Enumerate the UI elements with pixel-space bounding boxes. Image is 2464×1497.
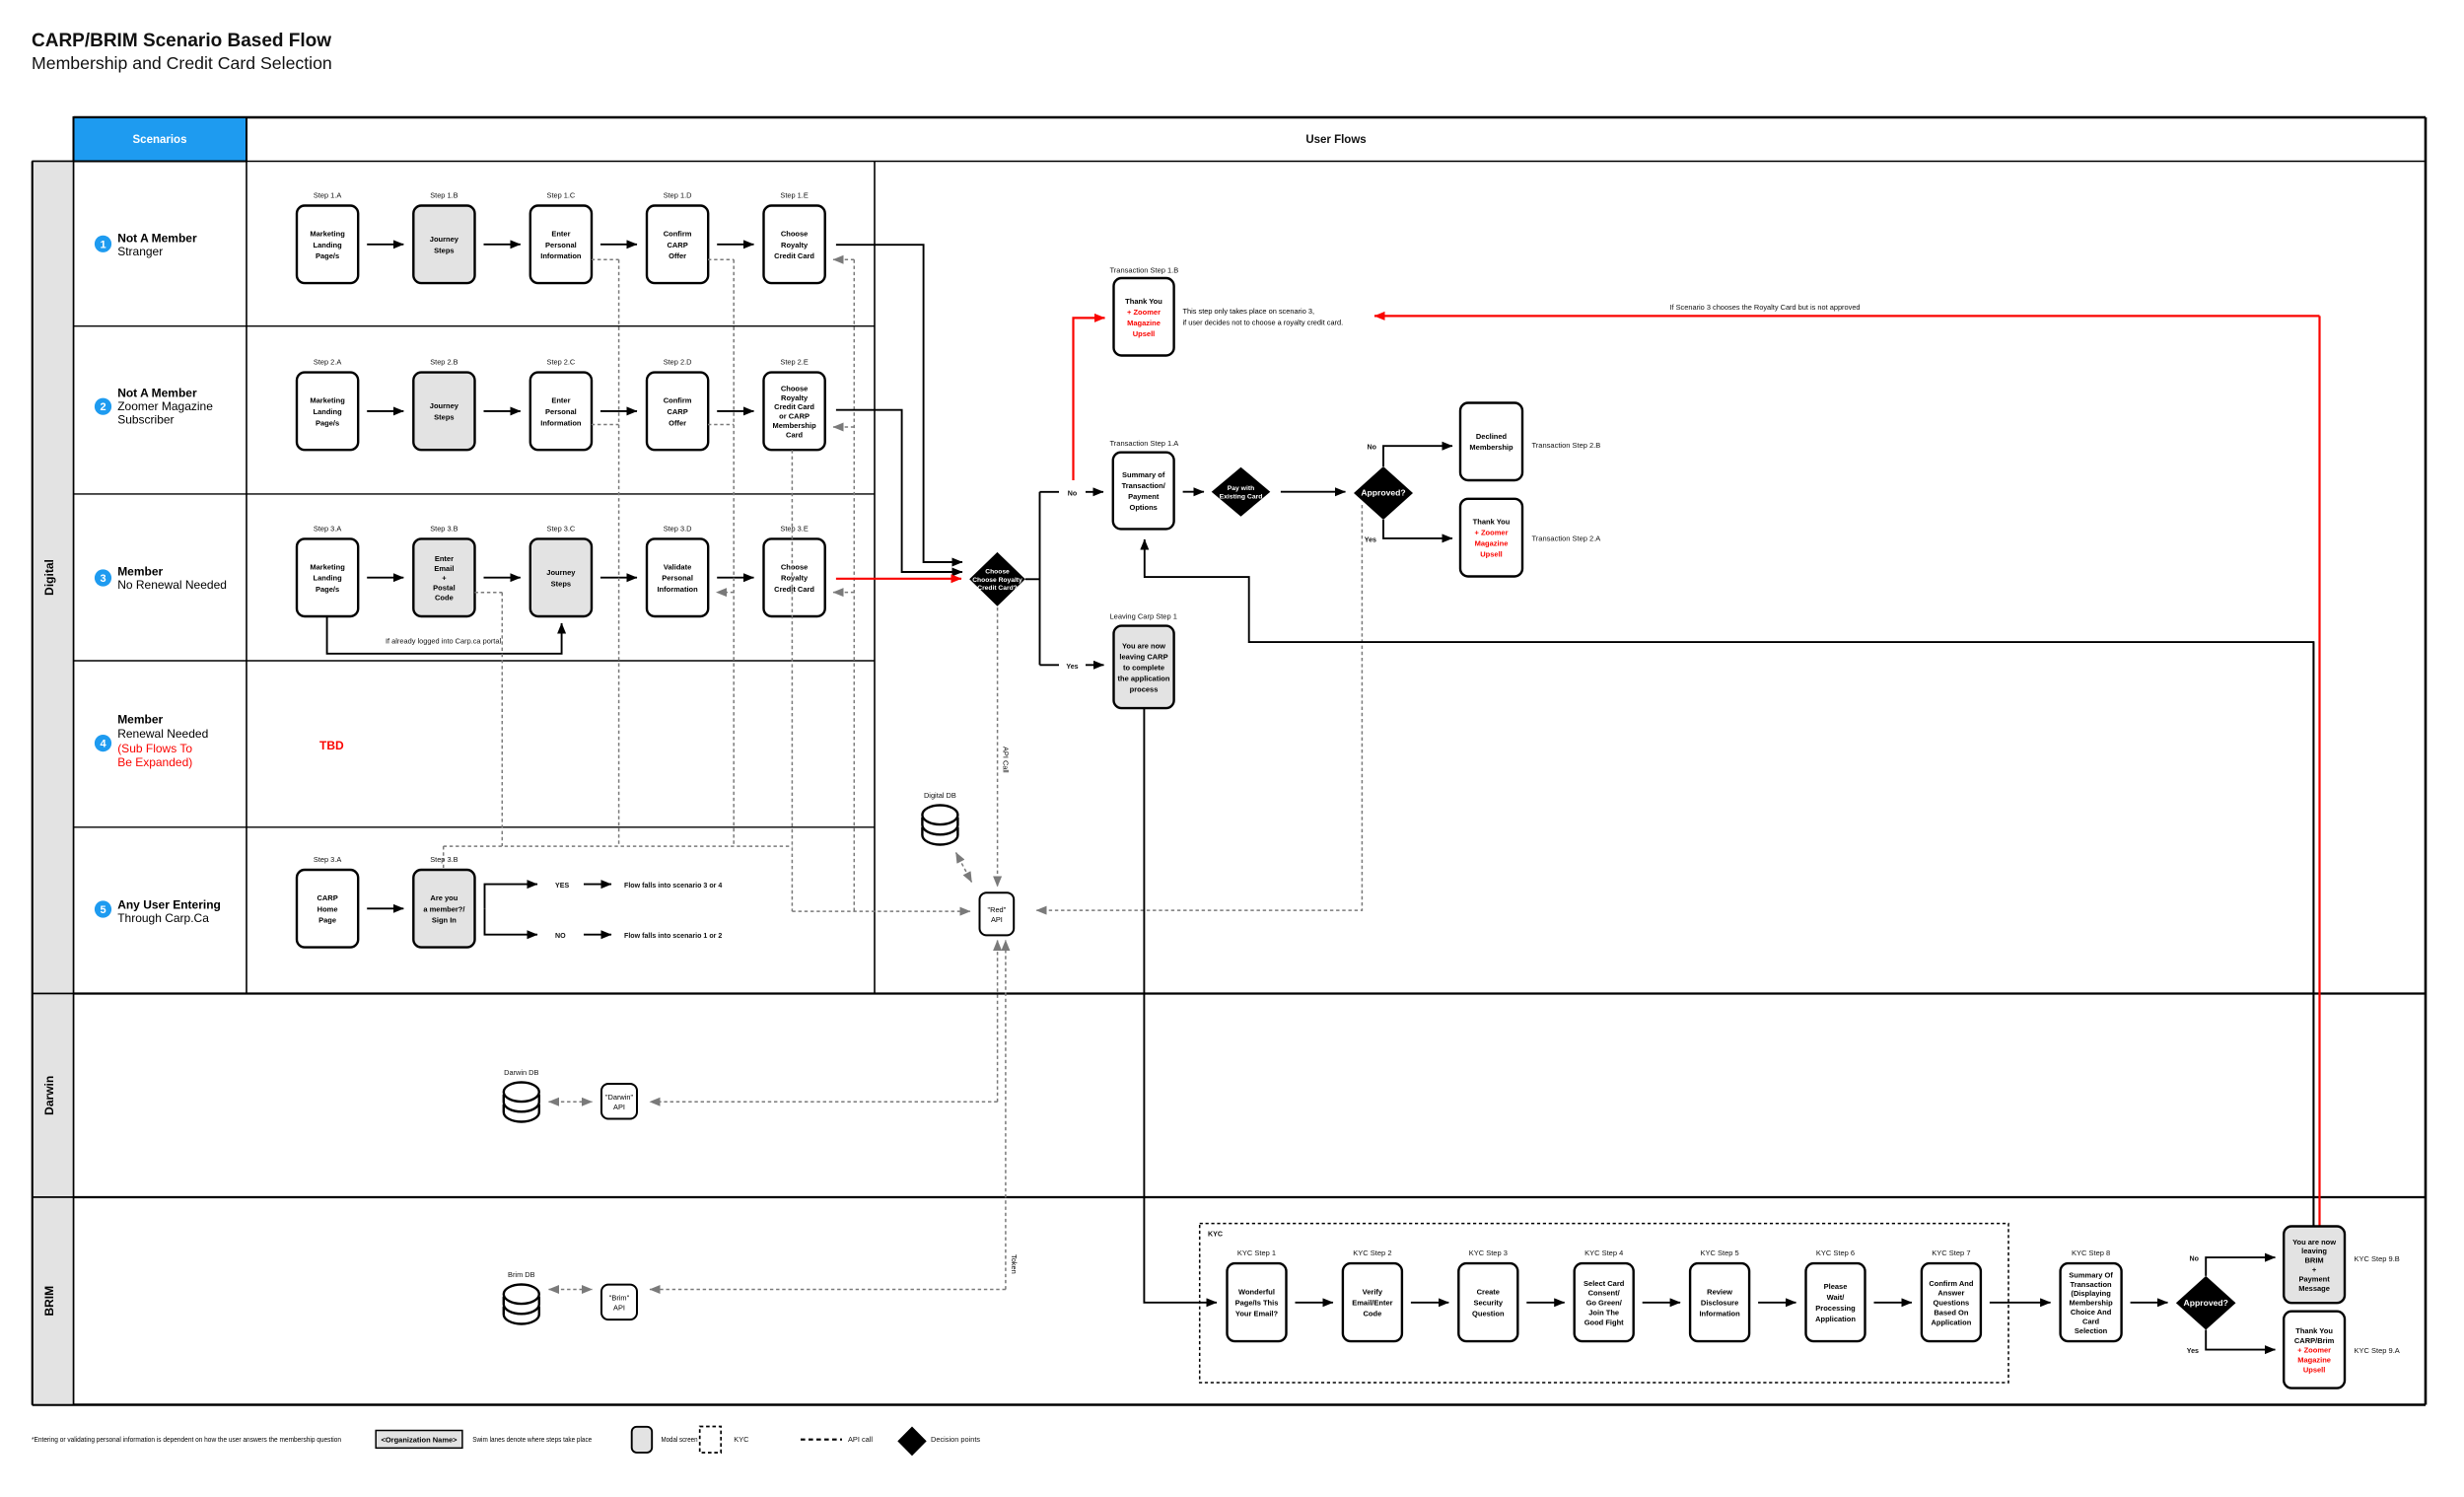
svg-text:Steps: Steps bbox=[551, 579, 571, 588]
box step 1.E Choose Royalty Credit Card bbox=[764, 206, 825, 284]
annotation scenario-3 note bbox=[1183, 307, 1344, 327]
wire BRIM approved Yes corner bbox=[2206, 1330, 2275, 1350]
wire approved No corner bbox=[1383, 446, 1452, 466]
wire KYC 1 to 2 bbox=[1296, 1302, 1333, 1304]
api-call stub row1 C bbox=[592, 258, 619, 260]
svg-text:Information: Information bbox=[1699, 1310, 1740, 1319]
svg-text:to complete: to complete bbox=[1123, 663, 1164, 672]
svg-text:Are you: Are you bbox=[430, 893, 458, 902]
svg-text:Scenarios: Scenarios bbox=[133, 134, 187, 146]
scenario 3 label bbox=[117, 565, 227, 593]
svg-text:Create: Create bbox=[1477, 1288, 1500, 1297]
database Digital DB bbox=[922, 806, 957, 845]
svg-text:4: 4 bbox=[100, 739, 106, 750]
svg-text:Card: Card bbox=[786, 430, 804, 439]
svg-text:Step 2.D: Step 2.D bbox=[664, 358, 692, 367]
svg-text:Darwin: Darwin bbox=[42, 1076, 56, 1115]
svg-text:Choose: Choose bbox=[781, 384, 809, 392]
wire Pay to Approved diamond bbox=[1281, 491, 1346, 493]
svg-text:Thank You: Thank You bbox=[2295, 1326, 2333, 1335]
legend Organization Name box bbox=[376, 1431, 462, 1449]
decision Choose Royalty Credit Card? bbox=[969, 552, 1025, 606]
svg-text:Landing: Landing bbox=[314, 574, 343, 583]
BRIM lane label bbox=[33, 1197, 74, 1405]
svg-text:Join The: Join The bbox=[1588, 1309, 1619, 1318]
api node "Red" API bbox=[980, 892, 1015, 935]
wire row2 A to B bbox=[367, 410, 403, 412]
svg-text:Step 2.E: Step 2.E bbox=[780, 358, 808, 367]
svg-text:Summary of: Summary of bbox=[1122, 470, 1165, 479]
svg-text:Your Email?: Your Email? bbox=[1235, 1310, 1279, 1319]
svg-text:Existing Card: Existing Card bbox=[1220, 494, 1263, 501]
api-call stub 3.B bbox=[475, 592, 503, 594]
svg-text:Step 1.E: Step 1.E bbox=[780, 191, 808, 200]
svg-text:KYC Step 1: KYC Step 1 bbox=[1237, 1248, 1276, 1257]
svg-text:Steps: Steps bbox=[434, 247, 454, 255]
wire KYC 5 to 6 bbox=[1758, 1302, 1795, 1304]
wire row2 B to C bbox=[484, 410, 521, 412]
api-call drop to row5 sign-in box bbox=[443, 846, 445, 868]
svg-text:Step 1.D: Step 1.D bbox=[664, 191, 692, 200]
svg-text:Landing: Landing bbox=[314, 241, 343, 249]
api-call arrow into 3.E bbox=[833, 592, 854, 594]
svg-text:Step 1.A: Step 1.A bbox=[314, 191, 341, 200]
svg-text:Answer: Answer bbox=[1937, 1289, 1964, 1298]
svg-text:Step 3.A: Step 3.A bbox=[314, 524, 341, 533]
api-call Darwin API horizontal bbox=[650, 1101, 998, 1103]
legend API call sample bbox=[801, 1439, 842, 1441]
svg-text:Zoomer Magazine: Zoomer Magazine bbox=[117, 399, 213, 413]
legend modal screen sample bbox=[632, 1427, 653, 1453]
svg-text:"Darwin": "Darwin" bbox=[605, 1093, 634, 1102]
svg-text:Question: Question bbox=[1472, 1310, 1505, 1319]
database Brim DB bbox=[504, 1285, 539, 1324]
svg-text:Member: Member bbox=[117, 713, 163, 727]
wire choose No arrow to Summary bbox=[1086, 491, 1103, 493]
svg-text:Information: Information bbox=[657, 585, 698, 594]
table outer bottom border bbox=[33, 1403, 2426, 1406]
svg-text:Not A Member: Not A Member bbox=[117, 231, 197, 245]
wire choose branch vertical bbox=[1039, 492, 1041, 666]
box KYC Step 5 bbox=[1690, 1263, 1749, 1341]
box KYC Step 6 bbox=[1806, 1263, 1866, 1341]
svg-text:*Entering or validating person: *Entering or validating personal informa… bbox=[32, 1435, 341, 1444]
svg-text:the application: the application bbox=[1118, 674, 1170, 682]
svg-text:CARP: CARP bbox=[317, 893, 337, 902]
svg-text:Modal screen: Modal screen bbox=[662, 1435, 698, 1444]
wire KYC 3 to 4 bbox=[1526, 1302, 1564, 1304]
svg-text:Step 3.B: Step 3.B bbox=[430, 524, 458, 533]
svg-text:Magazine: Magazine bbox=[2297, 1356, 2331, 1365]
svg-text:a member?/: a member?/ bbox=[423, 904, 465, 913]
box step 2.E Choose Royalty Credit Card or CARP Membership Card bbox=[764, 373, 825, 451]
svg-text:If already logged into Carp.ca: If already logged into Carp.ca portal bbox=[386, 637, 501, 646]
scenario 2 label bbox=[117, 386, 213, 426]
svg-text:Choose: Choose bbox=[781, 229, 809, 238]
svg-text:Validate: Validate bbox=[664, 562, 691, 571]
svg-text:Information: Information bbox=[540, 418, 582, 427]
row separator 3/4 bbox=[74, 660, 876, 662]
api-call Darwin DB link bbox=[549, 1101, 593, 1103]
wire choose diamond out bbox=[1025, 578, 1040, 580]
row separator 4/5 bbox=[74, 826, 876, 828]
box step 3.C Journey Steps (modal) bbox=[530, 538, 592, 616]
token Brim API to Red API vertical bbox=[1005, 941, 1007, 1290]
wire row2 D to E bbox=[717, 410, 753, 412]
svg-text:User Flows: User Flows bbox=[1305, 134, 1366, 146]
Digital/Darwin lane separator bbox=[33, 992, 2426, 994]
api-call into Red API from left bbox=[792, 910, 970, 912]
svg-text:CARP: CARP bbox=[667, 407, 687, 416]
svg-text:Sign In: Sign In bbox=[432, 916, 457, 925]
box KYC Step 4 bbox=[1575, 1263, 1634, 1341]
svg-text:KYC Step 2: KYC Step 2 bbox=[1353, 1248, 1391, 1257]
box step 3.E Choose Royalty Credit Card bbox=[764, 538, 825, 616]
svg-text:CARP/BRIM Scenario Based Flow: CARP/BRIM Scenario Based Flow bbox=[32, 31, 331, 51]
box KYC Step 7 bbox=[1922, 1263, 1981, 1341]
svg-text:Page: Page bbox=[318, 916, 336, 925]
api node "Brim" API bbox=[601, 1285, 637, 1320]
svg-text:Transaction/: Transaction/ bbox=[1122, 481, 1166, 490]
svg-text:API call: API call bbox=[848, 1435, 873, 1444]
svg-text:CARP: CARP bbox=[667, 241, 687, 249]
Digital lane label bbox=[33, 162, 74, 994]
api-call Choose diamond to Red API bbox=[997, 607, 999, 887]
svg-text:Application: Application bbox=[1815, 1315, 1856, 1323]
svg-text:Message: Message bbox=[2298, 1284, 2330, 1293]
svg-text:Magazine: Magazine bbox=[1127, 319, 1161, 327]
svg-text:Transaction Step 1.B: Transaction Step 1.B bbox=[1110, 266, 1179, 275]
legend KYC sample bbox=[700, 1427, 722, 1454]
svg-text:Upsell: Upsell bbox=[1133, 329, 1156, 338]
svg-text:Review: Review bbox=[1707, 1288, 1732, 1297]
svg-text:NO: NO bbox=[555, 932, 566, 940]
wire choose Yes stub bbox=[1040, 664, 1060, 666]
svg-text:Credit Card: Credit Card bbox=[774, 251, 814, 260]
svg-text:Step 2.C: Step 2.C bbox=[547, 358, 576, 367]
api-call Digital DB to Red API diagonal bbox=[956, 853, 972, 883]
svg-text:KYC: KYC bbox=[1208, 1231, 1223, 1239]
wire Summary to Pay diamond bbox=[1183, 491, 1204, 493]
scenario 5 label bbox=[117, 897, 221, 925]
wire row1 A to B bbox=[367, 244, 403, 246]
svg-text:Code: Code bbox=[1364, 1310, 1382, 1319]
svg-text:Credit Card: Credit Card bbox=[774, 402, 814, 411]
table outer left border bbox=[32, 162, 35, 1405]
svg-text:TBD: TBD bbox=[319, 739, 344, 752]
svg-text:No: No bbox=[2190, 1255, 2200, 1263]
box Leaving CARP message (modal) bbox=[1114, 626, 1174, 709]
svg-text:Through Carp.Ca: Through Carp.Ca bbox=[117, 911, 209, 925]
svg-text:"Brim": "Brim" bbox=[609, 1293, 630, 1302]
svg-text:API: API bbox=[991, 915, 1003, 924]
table outer right border bbox=[2425, 117, 2428, 1405]
box Transaction 1.B Thank You + Zoomer Magazine Upsell bbox=[1114, 278, 1174, 356]
svg-text:Any User Entering: Any User Entering bbox=[117, 897, 221, 911]
api-call stub row1 D bbox=[708, 258, 734, 260]
wire red vertical to BRIM bbox=[2318, 316, 2320, 1226]
svg-text:Yes: Yes bbox=[1365, 535, 1376, 543]
scenario 3 number badge bbox=[95, 569, 111, 586]
svg-text:Enter: Enter bbox=[551, 396, 570, 405]
svg-text:Not A Member: Not A Member bbox=[117, 386, 197, 399]
svg-text:Digital: Digital bbox=[42, 559, 56, 596]
wire row3 C to D bbox=[600, 577, 637, 579]
svg-text:Select Card: Select Card bbox=[1584, 1279, 1625, 1288]
svg-text:API: API bbox=[613, 1303, 625, 1312]
decision Approved? (BRIM) bbox=[2176, 1276, 2236, 1330]
wire NO to outcome bbox=[584, 934, 611, 936]
svg-text:Application: Application bbox=[1931, 1318, 1971, 1326]
svg-text:3: 3 bbox=[100, 573, 106, 585]
svg-text:Offer: Offer bbox=[669, 418, 686, 427]
wire KYC 2 to 3 bbox=[1411, 1302, 1448, 1304]
api-call from Approved to Red API bbox=[1036, 505, 1362, 910]
Darwin lane label bbox=[33, 994, 74, 1198]
svg-text:Brim DB: Brim DB bbox=[508, 1270, 535, 1279]
wire row5 split bracket bbox=[484, 907, 486, 909]
svg-text:API Call: API Call bbox=[1002, 747, 1011, 773]
svg-text:Email: Email bbox=[434, 564, 454, 573]
api node "Darwin" API bbox=[601, 1084, 637, 1119]
svg-text:Royalty: Royalty bbox=[781, 241, 809, 249]
svg-text:Approved?: Approved? bbox=[1361, 488, 1405, 498]
svg-text:KYC Step 9.A: KYC Step 9.A bbox=[2355, 1346, 2400, 1355]
KYC dashed boundary box bbox=[1200, 1224, 2008, 1383]
wire row3 A to B bbox=[367, 577, 403, 579]
svg-text:Based On: Based On bbox=[1934, 1309, 1968, 1318]
svg-text:+: + bbox=[2312, 1265, 2317, 1274]
lane column divider bbox=[73, 162, 75, 1405]
svg-text:Steps: Steps bbox=[434, 413, 454, 422]
header bottom line bbox=[33, 161, 2426, 163]
svg-text:Transaction: Transaction bbox=[2071, 1280, 2113, 1289]
svg-text:KYC Step 5: KYC Step 5 bbox=[1700, 1248, 1738, 1257]
svg-text:Choose: Choose bbox=[985, 569, 1010, 576]
svg-text:Credit Card?: Credit Card? bbox=[977, 585, 1018, 592]
wire BRIM approved No corner bbox=[2206, 1257, 2275, 1276]
api-call bus horizontal y858 bbox=[444, 845, 793, 847]
svg-text:Member: Member bbox=[117, 565, 163, 579]
api-call vertical x866 bbox=[853, 259, 855, 911]
svg-text:KYC Step 4: KYC Step 4 bbox=[1584, 1248, 1623, 1257]
svg-text:KYC Step 6: KYC Step 6 bbox=[1816, 1248, 1855, 1257]
svg-text:+ Zoomer: + Zoomer bbox=[1127, 308, 1161, 317]
row separator 1/2 bbox=[74, 325, 876, 327]
wire 1.E to choose diamond bbox=[836, 245, 962, 562]
svg-text:Yes: Yes bbox=[2187, 1347, 2199, 1355]
wire row2 C to D bbox=[600, 410, 637, 412]
svg-text:Token: Token bbox=[1010, 1254, 1019, 1274]
svg-text:Renewal Needed: Renewal Needed bbox=[117, 727, 208, 741]
svg-text:Wonderful: Wonderful bbox=[1238, 1288, 1275, 1297]
svg-text:Postal: Postal bbox=[433, 584, 456, 593]
api-call stub row2 C bbox=[592, 424, 619, 426]
svg-text:CARP/Brim: CARP/Brim bbox=[2294, 1336, 2335, 1345]
svg-text:Disclosure: Disclosure bbox=[1701, 1299, 1738, 1308]
svg-text:process: process bbox=[1130, 684, 1159, 693]
api-call vertical x744 bbox=[733, 259, 735, 846]
svg-text:Email/Enter: Email/Enter bbox=[1352, 1299, 1392, 1308]
svg-text:Step 2.B: Step 2.B bbox=[430, 358, 458, 367]
svg-text:Membership: Membership bbox=[2070, 1299, 2114, 1308]
row separator 2/3 bbox=[74, 493, 876, 495]
box step 3.D Validate Personal Information bbox=[647, 538, 708, 616]
wire BRIM return to Summary bbox=[1145, 539, 2314, 1227]
svg-text:Journey: Journey bbox=[430, 401, 459, 410]
svg-text:Verify: Verify bbox=[1363, 1288, 1383, 1297]
wire row5 NO branch bbox=[485, 908, 538, 934]
svg-text:<Organization Name>: <Organization Name> bbox=[381, 1436, 458, 1445]
svg-text:Options: Options bbox=[1130, 503, 1158, 512]
svg-text:Enter: Enter bbox=[551, 229, 570, 238]
wire 3.E to choose diamond (red) bbox=[836, 578, 961, 580]
Darwin/BRIM lane separator bbox=[33, 1196, 2426, 1198]
wire row1 D to E bbox=[717, 244, 753, 246]
api-call vertical from 2.E bottom bbox=[791, 450, 793, 911]
box KYC Step 2 bbox=[1343, 1263, 1402, 1341]
svg-text:Royalty: Royalty bbox=[781, 574, 809, 583]
svg-text:Pay with: Pay with bbox=[1228, 485, 1255, 492]
table outer top border bbox=[74, 116, 2427, 119]
wire black vertical into 9.B bbox=[2312, 642, 2314, 1226]
svg-text:Approved?: Approved? bbox=[2184, 1298, 2228, 1308]
svg-text:Security: Security bbox=[1473, 1299, 1503, 1308]
box step 3.B Enter Email + Postal Code (modal) bbox=[413, 538, 474, 616]
svg-text:Choice And: Choice And bbox=[2071, 1308, 2112, 1317]
svg-text:Go Green/: Go Green/ bbox=[1586, 1299, 1623, 1308]
svg-text:Stranger: Stranger bbox=[117, 245, 163, 258]
svg-text:Marketing: Marketing bbox=[310, 562, 345, 571]
svg-text:leaving: leaving bbox=[2301, 1247, 2327, 1255]
box KYC Step 8 bbox=[2061, 1263, 2122, 1341]
svg-text:Step 2.A: Step 2.A bbox=[314, 358, 341, 367]
svg-text:Marketing: Marketing bbox=[310, 229, 345, 238]
svg-text:Landing: Landing bbox=[314, 407, 343, 416]
svg-text:Upsell: Upsell bbox=[1480, 550, 1503, 559]
api-call vertical x627 bbox=[618, 259, 620, 846]
svg-text:Decision points: Decision points bbox=[931, 1435, 980, 1444]
box Transaction 1.A Summary of Transaction/Payment Options bbox=[1113, 453, 1174, 530]
svg-text:Choose Royalty: Choose Royalty bbox=[972, 577, 1022, 584]
svg-text:Credit Card: Credit Card bbox=[774, 585, 814, 594]
svg-text:If Scenario 3 chooses the Roya: If Scenario 3 chooses the Royalty Card b… bbox=[1669, 303, 1860, 312]
svg-text:Enter: Enter bbox=[435, 554, 454, 563]
wire row1 C to D bbox=[600, 244, 637, 246]
api-call vertical x509 bbox=[501, 593, 503, 846]
scenario column divider bbox=[246, 117, 247, 994]
wire KYC 7 to 8 bbox=[1990, 1302, 2051, 1304]
svg-text:Confirm And: Confirm And bbox=[1929, 1279, 1974, 1288]
wire YES to outcome bbox=[584, 884, 611, 886]
box step 1.D Confirm CARP Offer bbox=[647, 206, 708, 284]
svg-text:Declined: Declined bbox=[1476, 432, 1508, 441]
svg-text:Magazine: Magazine bbox=[1475, 539, 1509, 548]
box KYC 9.A Thank You CARP/Brim + Zoomer Magazine Upsell bbox=[2284, 1312, 2345, 1389]
wire Leaving CARP down to KYC bbox=[1144, 708, 1217, 1303]
svg-text:Processing: Processing bbox=[1815, 1304, 1856, 1313]
svg-text:Confirm: Confirm bbox=[664, 396, 692, 405]
svg-text:Personal: Personal bbox=[545, 241, 577, 249]
svg-text:Thank You: Thank You bbox=[1473, 518, 1511, 527]
svg-text:Offer: Offer bbox=[669, 251, 686, 260]
wire KYC8 to Approved (BRIM) bbox=[2131, 1302, 2168, 1304]
decision Approved? (digital) bbox=[1354, 466, 1413, 520]
svg-text:Journey: Journey bbox=[430, 235, 459, 244]
box row5 CARP Home Page bbox=[297, 870, 358, 948]
svg-text:Step 3.C: Step 3.C bbox=[547, 524, 576, 533]
token Brim API horizontal bbox=[650, 1289, 1006, 1291]
box KYC Step 1 bbox=[1228, 1263, 1287, 1341]
wire row3 B to C bbox=[484, 577, 521, 579]
svg-text:Swim lanes denote where steps: Swim lanes denote where steps take place bbox=[472, 1435, 592, 1444]
svg-text:Royalty: Royalty bbox=[781, 393, 809, 402]
svg-text:YES: YES bbox=[555, 882, 569, 890]
svg-text:Transaction Step 2.B: Transaction Step 2.B bbox=[1532, 441, 1601, 450]
svg-text:Consent/: Consent/ bbox=[1588, 1289, 1621, 1298]
svg-text:No: No bbox=[1368, 444, 1377, 452]
wire choose No stub bbox=[1040, 491, 1060, 493]
svg-text:You are now: You are now bbox=[2292, 1238, 2336, 1247]
svg-text:2: 2 bbox=[100, 401, 106, 413]
wire red elbow to Thank You 1.B bbox=[1074, 318, 1105, 480]
api-call arrow into 3.D bbox=[717, 592, 735, 594]
box step 3.A Marketing Landing Page/s bbox=[297, 538, 358, 616]
svg-text:+ Zoomer: + Zoomer bbox=[2297, 1346, 2331, 1355]
svg-text:Personal: Personal bbox=[545, 407, 577, 416]
scenario 4 number badge bbox=[95, 735, 111, 751]
svg-text:Subscriber: Subscriber bbox=[117, 413, 174, 427]
svg-text:You are now: You are now bbox=[1122, 641, 1165, 650]
svg-text:Flow falls into scenario 3 or: Flow falls into scenario 3 or 4 bbox=[624, 882, 722, 890]
box step 2.B Journey Steps (modal) bbox=[413, 373, 474, 451]
svg-text:Thank You: Thank You bbox=[1125, 297, 1162, 306]
svg-text:Membership: Membership bbox=[773, 421, 817, 430]
svg-text:(Displaying: (Displaying bbox=[2071, 1289, 2111, 1298]
box row5 Are you a member?/Sign In (modal) bbox=[413, 870, 474, 948]
box KYC Step 3 bbox=[1458, 1263, 1517, 1341]
scenario 1 label bbox=[117, 231, 197, 258]
api-call stub row2 D bbox=[708, 424, 734, 426]
svg-text:Personal: Personal bbox=[662, 574, 693, 583]
svg-text:Confirm: Confirm bbox=[664, 229, 692, 238]
box step 2.A Marketing Landing Page/s bbox=[297, 373, 358, 451]
svg-text:Marketing: Marketing bbox=[310, 396, 345, 405]
svg-text:No Renewal Needed: No Renewal Needed bbox=[117, 578, 227, 592]
wire KYC 4 to 5 bbox=[1643, 1302, 1680, 1304]
svg-text:Information: Information bbox=[540, 251, 582, 260]
svg-text:Wait/: Wait/ bbox=[1827, 1293, 1846, 1302]
svg-text:Step 3.A: Step 3.A bbox=[314, 855, 341, 864]
box step 1.A Marketing Landing Page/s bbox=[297, 206, 358, 284]
svg-text:Step 3.E: Step 3.E bbox=[780, 524, 808, 533]
svg-text:This step only takes place on: This step only takes place on scenario 3… bbox=[1183, 307, 1315, 316]
svg-text:Good Fight: Good Fight bbox=[1584, 1318, 1624, 1326]
svg-text:API: API bbox=[613, 1103, 625, 1111]
database Darwin DB bbox=[504, 1083, 539, 1122]
svg-text:Page/Is This: Page/Is This bbox=[1235, 1299, 1279, 1308]
api-call arrow into 1.E bbox=[833, 258, 854, 260]
svg-text:(Sub Flows To: (Sub Flows To bbox=[117, 742, 192, 755]
box step 1.C Enter Personal Information bbox=[530, 206, 592, 284]
svg-text:+ Zoomer: + Zoomer bbox=[1475, 529, 1509, 537]
svg-text:5: 5 bbox=[100, 904, 106, 916]
svg-text:Page/s: Page/s bbox=[316, 251, 339, 260]
svg-text:Membership and Credit Card Sel: Membership and Credit Card Selection bbox=[32, 53, 332, 73]
wire row3 D to E bbox=[717, 577, 753, 579]
scenario 4 label bbox=[117, 713, 208, 770]
svg-text:Step 1.B: Step 1.B bbox=[430, 191, 458, 200]
